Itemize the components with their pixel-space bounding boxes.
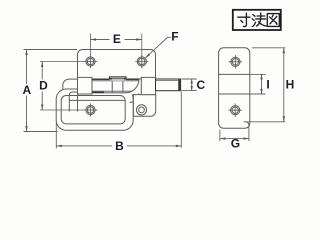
top-right mounting hole xyxy=(137,57,146,66)
side plate xyxy=(219,48,250,128)
svg-text:A: A xyxy=(22,83,31,97)
dim C line xyxy=(191,79,193,91)
arrow D top xyxy=(41,62,43,68)
arrow I bottom xyxy=(260,89,262,94)
dim B line xyxy=(56,145,181,147)
bail handle (folding D-ring) xyxy=(56,89,133,130)
left wing ear xyxy=(63,79,78,89)
mounting plate (front view) xyxy=(78,50,156,112)
arrow I top xyxy=(260,74,262,79)
side bolt lines xyxy=(219,74,250,94)
arrow G left xyxy=(220,137,226,139)
arrow C bottom xyxy=(191,86,193,91)
dim E line xyxy=(91,39,142,41)
svg-text:F: F xyxy=(171,30,178,44)
top-right mounting hole centerline xyxy=(141,34,143,69)
bolt dark top edge left xyxy=(92,78,110,80)
arrow B right xyxy=(176,145,182,147)
bottom mounting hole xyxy=(86,105,95,114)
dim I extension lines xyxy=(250,74,266,94)
arrow G right xyxy=(243,137,249,139)
knob stem xyxy=(112,81,123,93)
side hole bottom xyxy=(231,106,240,115)
arrow F xyxy=(145,54,150,59)
arrow H top xyxy=(283,48,285,54)
dim H extension lines xyxy=(244,48,286,122)
dim A extension lines xyxy=(24,50,78,132)
kanji 法 xyxy=(252,13,266,27)
dim B extension lines xyxy=(56,92,181,149)
left guide block xyxy=(78,77,93,94)
top-left mounting hole xyxy=(86,57,95,66)
svg-text:E: E xyxy=(113,32,121,46)
svg-text:H: H xyxy=(286,78,295,92)
arrow C top xyxy=(191,79,193,84)
svg-text:B: B xyxy=(115,139,124,153)
bolt bottom dark segment xyxy=(92,92,104,94)
dim H line xyxy=(283,48,285,122)
dim C extension lines xyxy=(182,79,197,91)
bolt dark top edge right xyxy=(126,78,141,80)
dim D line xyxy=(41,62,43,111)
dim G line xyxy=(220,138,249,140)
right guide block xyxy=(141,77,155,94)
pivot bracket xyxy=(133,95,155,117)
knob cap xyxy=(110,77,127,79)
bottom mounting hole centerline xyxy=(40,109,98,111)
svg-text:G: G xyxy=(231,137,240,151)
arrow E right xyxy=(136,38,142,40)
pivot ring xyxy=(136,105,146,115)
bail arm inner arc xyxy=(130,94,139,103)
arrow A top xyxy=(25,50,27,56)
svg-text:C: C xyxy=(196,78,205,92)
svg-text:I: I xyxy=(266,77,269,91)
leader F xyxy=(145,37,171,58)
slide bolt xyxy=(92,79,141,93)
bail edge corner in side view xyxy=(246,122,249,125)
side hole top xyxy=(231,57,240,66)
knob hatch band xyxy=(112,79,124,82)
dim I line xyxy=(261,74,263,94)
arrow B left xyxy=(56,145,62,147)
kanji 図 xyxy=(267,14,279,27)
latch pin xyxy=(156,79,181,91)
dim G extension lines xyxy=(220,125,249,141)
bail arm outer arc xyxy=(126,79,142,94)
top-left mounting hole centerlines xyxy=(40,34,91,69)
title box frame xyxy=(233,10,281,30)
spring tab inside opening xyxy=(69,92,78,112)
arrow E left xyxy=(91,38,97,40)
dim A line xyxy=(26,50,28,132)
arrow D bottom xyxy=(41,105,43,111)
latch pin end cap xyxy=(178,79,180,91)
arrow H bottom xyxy=(283,116,285,122)
arrow A bottom xyxy=(25,126,27,132)
body bottom edge seen through bail opening xyxy=(69,99,125,101)
svg-text:D: D xyxy=(39,79,48,93)
kanji 寸 xyxy=(238,13,250,26)
